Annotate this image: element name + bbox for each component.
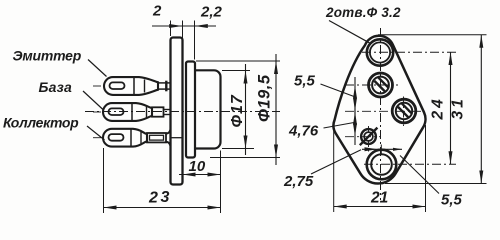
dimension 2 (flange thickness) bbox=[152, 3, 216, 60]
label Коллектор (collector) bbox=[3, 115, 79, 131]
node bottom hole horizontal centerline bbox=[364, 163, 456, 165]
wire leader 2отв.Ф3.2 bbox=[329, 21, 370, 44]
dimension 5,5 (emitter to base pin spacing) bbox=[294, 73, 357, 120]
dimension 4,76 (base to collector pin spacing) bbox=[288, 104, 357, 145]
node top hole horizontal centerline bbox=[362, 51, 456, 53]
svg-text:Эмиттер: Эмиттер bbox=[13, 48, 82, 64]
svg-text:2: 2 bbox=[148, 190, 158, 207]
svg-text:4,76: 4,76 bbox=[288, 123, 319, 140]
mounting hole top Ф3.2 bbox=[367, 39, 393, 65]
dimension 23 (overall length) bbox=[104, 148, 221, 213]
emitter pin glass seal (hatched) bbox=[369, 73, 393, 97]
flange plate (side view, 2 mm thick) bbox=[171, 38, 183, 185]
node vertical axis centerline (bottom view) bbox=[380, 28, 382, 200]
dimension 21 (flange width) bbox=[334, 125, 426, 212]
svg-text:2,75: 2,75 bbox=[283, 173, 314, 190]
dimension Ф17 (can diameter) bbox=[222, 64, 254, 155]
wire emitter lead to flange bbox=[93, 81, 170, 92]
svg-text:5,5: 5,5 bbox=[294, 73, 316, 90]
svg-text:5,5: 5,5 bbox=[441, 192, 463, 209]
label База (base) bbox=[39, 79, 72, 95]
metal cap rolled lip (Ф19.5) bbox=[186, 62, 195, 158]
svg-text:3: 3 bbox=[161, 189, 170, 206]
label 2отв.Ф3.2 (2 holes Ф3.2) bbox=[325, 5, 401, 20]
node base seal vertical centerline bbox=[403, 97, 405, 127]
transistor base pin insulator bead bbox=[103, 103, 152, 121]
node collector seal horizontal centerline bbox=[345, 136, 380, 138]
mounting hole bottom Ф3.2 bbox=[367, 150, 397, 180]
wire collector lead with sleeve and boss bbox=[93, 130, 182, 146]
dimension 2,75 (collector pin offset) bbox=[283, 145, 402, 191]
svg-text:База: База bbox=[39, 79, 72, 95]
svg-text:24: 24 bbox=[430, 96, 447, 120]
label Эмиттер (emitter) bbox=[13, 48, 82, 64]
dimension 10 (flange to can end) bbox=[179, 151, 221, 214]
dimension 31 (flange height) bbox=[378, 35, 487, 184]
wire leader 5,5 bottom bbox=[400, 156, 439, 194]
metal cap can body (Ф17) bbox=[196, 70, 221, 148]
wire leader 2,75 bbox=[311, 150, 361, 174]
base pin glass seal (hatched) bbox=[392, 99, 416, 123]
transistor emitter pin insulator bead bbox=[104, 77, 158, 95]
node emitter seal horizontal centerline bbox=[345, 84, 398, 86]
wire base lead with sleeve to flange bbox=[93, 107, 170, 116]
svg-text:2: 2 bbox=[152, 3, 162, 20]
svg-text:2отв.Ф 3.2: 2отв.Ф 3.2 bbox=[325, 5, 401, 20]
node base seal horizontal centerline bbox=[345, 110, 421, 112]
svg-text:Ф19,5: Ф19,5 bbox=[256, 74, 274, 122]
dimension 24 (hole spacing) bbox=[430, 52, 453, 164]
wire package axis centerline (side view) bbox=[85, 111, 280, 113]
svg-text:10: 10 bbox=[189, 158, 206, 175]
wire leader 5,5 left bbox=[321, 84, 355, 97]
dimension Ф19,5 (lip diameter) bbox=[196, 54, 280, 165]
node collector seal vertical centerline bbox=[368, 126, 370, 153]
wire leader Эмиттер bbox=[88, 60, 107, 77]
dimension 2,2 (cap lip offset) bbox=[200, 4, 223, 21]
wire leader Коллектор bbox=[87, 126, 105, 140]
label 5,5 (bottom hole to edge) bbox=[441, 192, 463, 209]
transistor collector pin insulator bead bbox=[103, 129, 147, 147]
svg-text:Коллектор: Коллектор bbox=[3, 115, 79, 131]
flange outline (bottom view, rounded diamond) bbox=[333, 36, 425, 184]
wire leader База bbox=[83, 91, 104, 110]
svg-text:2,2: 2,2 bbox=[200, 4, 223, 21]
svg-text:31: 31 bbox=[450, 96, 467, 119]
svg-text:Ф17: Ф17 bbox=[229, 94, 246, 127]
wire leader 4,76 bbox=[324, 123, 355, 129]
collector pin glass seal (hatched) bbox=[360, 128, 378, 146]
svg-text:21: 21 bbox=[370, 190, 388, 207]
